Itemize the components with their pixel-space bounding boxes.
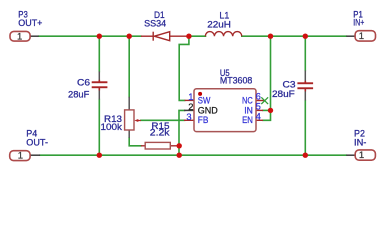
svg-text:3: 3 bbox=[186, 111, 191, 122]
svg-text:OUT+: OUT+ bbox=[18, 17, 43, 28]
svg-text:EN: EN bbox=[242, 115, 253, 126]
svg-text:OUT-: OUT- bbox=[26, 137, 48, 148]
svg-text:1: 1 bbox=[18, 150, 23, 161]
svg-text:28uF: 28uF bbox=[68, 88, 90, 99]
svg-text:IN-: IN- bbox=[354, 137, 366, 148]
svg-text:SS34: SS34 bbox=[144, 18, 166, 29]
svg-text:FB: FB bbox=[198, 115, 209, 126]
svg-text:2.2k: 2.2k bbox=[150, 127, 170, 138]
svg-text:4: 4 bbox=[256, 110, 261, 121]
svg-text:1: 1 bbox=[359, 31, 364, 42]
svg-text:22uH: 22uH bbox=[207, 19, 231, 30]
svg-text:100k: 100k bbox=[101, 121, 123, 132]
svg-text:MT3608: MT3608 bbox=[220, 74, 252, 85]
svg-text:C6: C6 bbox=[77, 77, 90, 88]
svg-text:1: 1 bbox=[17, 31, 22, 42]
svg-text:1: 1 bbox=[359, 150, 364, 161]
svg-text:IN+: IN+ bbox=[353, 16, 364, 27]
svg-text:28uF: 28uF bbox=[272, 88, 295, 99]
